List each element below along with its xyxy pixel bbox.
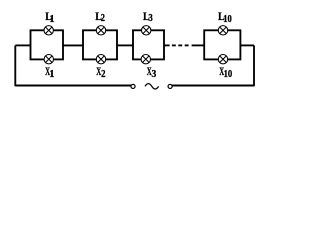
terminal right (168, 84, 172, 88)
wire: pair1 to pair2 (63, 44, 83, 46)
wire: solid before pair10 (192, 44, 205, 46)
label X1 (45, 66, 54, 80)
wire: bottom right horizontal (170, 84, 254, 86)
pair 10 box (204, 30, 240, 59)
wire: bottom left horizontal (15, 84, 133, 86)
wire: pair10 right stub (240, 44, 254, 46)
label L1 (45, 9, 54, 25)
wire: dash 2 (178, 44, 182, 46)
lamp L1 (44, 26, 53, 35)
pair 2 box (83, 30, 117, 59)
label X10 (219, 66, 232, 80)
wire: mid stub left end to pair 1 (15, 44, 30, 46)
lamp L10 (218, 26, 227, 35)
svg-text:2: 2 (101, 69, 105, 80)
svg-text:10: 10 (223, 14, 232, 25)
AC source sine (145, 84, 159, 89)
pair 1 box (31, 30, 64, 59)
label X3 (147, 66, 157, 80)
svg-text:2: 2 (101, 13, 105, 24)
lamp L2 (96, 26, 105, 35)
label X2 (96, 66, 105, 80)
wire: dash 1 (172, 44, 176, 46)
lamp X1 (44, 55, 53, 64)
wire: pair2 to pair3 (117, 44, 133, 46)
wire: pair3 right stub (164, 44, 170, 46)
lamp X2 (96, 55, 105, 64)
lamp X3 (141, 55, 150, 64)
svg-text:3: 3 (148, 13, 152, 24)
wire: left vertical down (14, 45, 16, 86)
lamp L3 (142, 26, 151, 35)
label L10 (218, 9, 232, 25)
label L3 (143, 9, 153, 24)
lamp X10 (218, 55, 227, 64)
svg-text:1: 1 (49, 14, 54, 25)
wire: right vertical down (253, 45, 255, 86)
svg-text:1: 1 (49, 69, 54, 80)
svg-text:10: 10 (224, 69, 233, 80)
svg-text:3: 3 (152, 69, 157, 80)
label L2 (95, 9, 105, 24)
pair 3 box (133, 30, 164, 59)
terminal left (131, 84, 135, 88)
wire: dash 3 (185, 44, 189, 46)
